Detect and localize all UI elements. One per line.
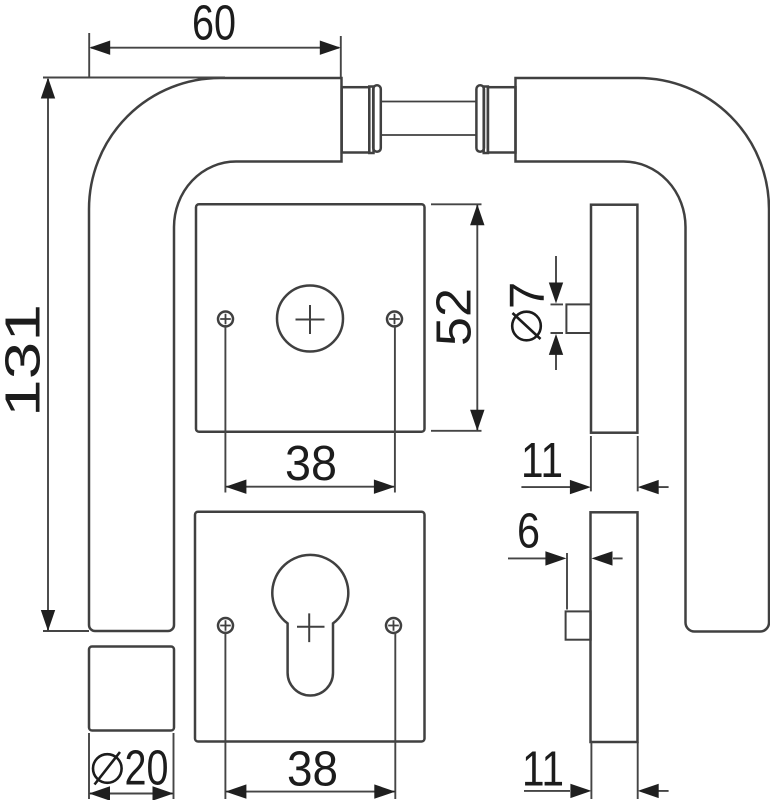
svg-text:11: 11: [521, 434, 563, 488]
spindle end square: [566, 304, 591, 333]
dim 38 upper line: [226, 486, 394, 488]
dim 131 extension lines: [43, 78, 225, 632]
arrowhead 52 top: [470, 204, 484, 225]
right handle outline: [516, 78, 770, 632]
arrowhead O20 left: [89, 786, 110, 800]
left collar: [342, 87, 370, 152]
svg-text:131: 131: [0, 304, 51, 417]
dim 38 lower line: [226, 791, 395, 793]
arrowhead 11 lower left: [570, 784, 591, 798]
dim O20 extension lines: [89, 733, 174, 799]
arrowhead O7 down: [549, 283, 563, 304]
arrowhead O20 right: [153, 786, 174, 800]
rosette 2 side view: [591, 512, 638, 742]
left washer: [369, 87, 373, 154]
left handle outline: [89, 78, 342, 631]
dim 52 line: [476, 205, 478, 430]
arrowhead O7 up: [549, 334, 563, 355]
arrowhead 131 bottom: [41, 610, 55, 631]
arrowhead 38 upper left: [225, 480, 246, 494]
dim O20 line: [90, 793, 173, 795]
label O7 diameter glyph: [512, 312, 541, 341]
svg-text:38: 38: [285, 437, 337, 491]
arrowhead 11 upper left: [570, 480, 591, 494]
dim 60 extension lines: [89, 33, 341, 77]
svg-text:52: 52: [428, 288, 482, 346]
rosette 1 center cross: [296, 305, 325, 334]
arrowhead 11 lower right: [638, 784, 659, 798]
svg-text:60: 60: [192, 0, 236, 51]
dim 38 upper extension lines: [225, 325, 395, 493]
spindle: [381, 102, 477, 136]
right bead: [476, 85, 484, 152]
dim 52 extension lines: [431, 204, 482, 430]
rosette 2 front plate: [195, 512, 425, 742]
rosette 1 left screw: [218, 312, 233, 327]
rosette 1 side view: [591, 205, 637, 433]
svg-text:20: 20: [125, 742, 169, 796]
dim 11 lower extension lines: [591, 742, 637, 799]
svg-text:7: 7: [501, 282, 555, 309]
rosette 2 center cross: [297, 613, 325, 642]
svg-text:6: 6: [517, 505, 540, 559]
arrowhead 6 left-pointing: [592, 551, 613, 565]
arrowhead 11 upper right: [638, 480, 659, 494]
dim 11 lower leader lines: [524, 790, 669, 792]
svg-text:38: 38: [287, 743, 338, 797]
right collar: [488, 87, 516, 152]
arrowhead 60 left: [89, 41, 110, 55]
rosette 2 euro cylinder hole: [272, 555, 348, 696]
dim 131 line: [47, 79, 49, 630]
left grip end cap: [89, 647, 174, 731]
arrowhead 131 top: [41, 78, 55, 99]
arrowhead 60 right: [320, 41, 341, 55]
dim O7 arrow lines and ticks: [551, 256, 564, 370]
arrowhead 38 lower left: [225, 784, 246, 798]
dim 60 line: [91, 47, 339, 49]
dim 38 lower extension lines: [225, 632, 395, 800]
rosette 2 left screw: [218, 618, 233, 633]
cylinder end square: [566, 611, 591, 639]
dim 11 upper extension lines: [591, 436, 638, 491]
arrowhead 38 lower right: [374, 784, 395, 798]
right washer: [484, 87, 488, 154]
arrowhead 6 right-pointing: [545, 551, 566, 565]
rosette 1 front plate: [196, 204, 425, 432]
dim 6 leader and extension lines: [508, 553, 623, 610]
svg-text:11: 11: [522, 743, 564, 797]
arrowhead 38 upper right: [374, 480, 395, 494]
rosette 2 right screw: [386, 618, 401, 633]
arrowhead 52 bottom: [470, 410, 484, 431]
label O20 diameter glyph: [93, 752, 122, 785]
dim 11 upper leader lines: [521, 486, 668, 488]
rosette 1 right screw: [387, 312, 402, 327]
rosette 1 spindle hole: [277, 286, 343, 352]
left bead: [373, 85, 381, 152]
